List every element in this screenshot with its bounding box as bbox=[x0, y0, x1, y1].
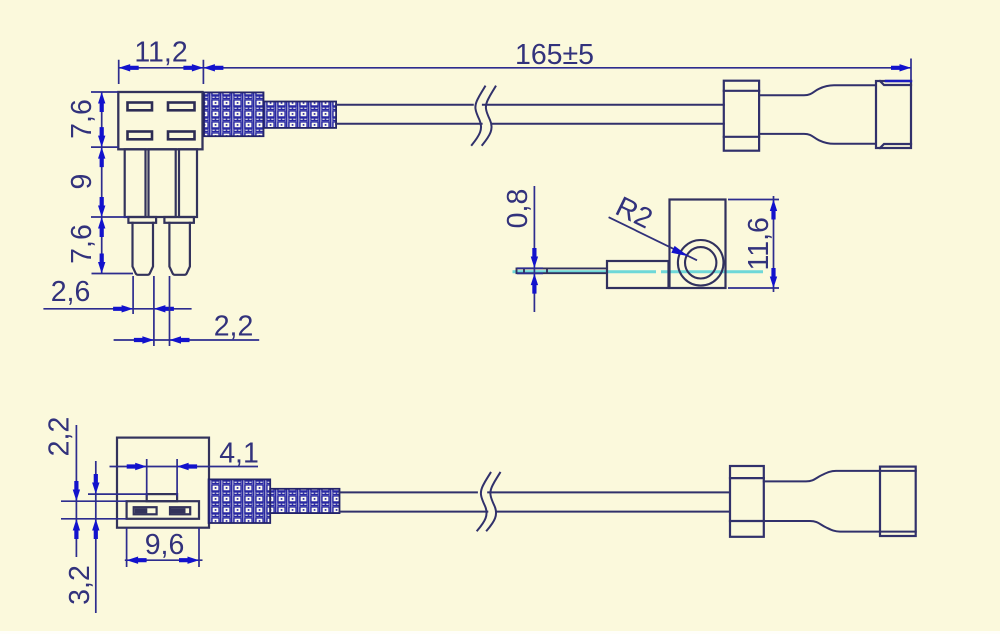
svg-text:2,6: 2,6 bbox=[51, 276, 91, 308]
svg-text:9: 9 bbox=[66, 174, 98, 190]
fuse slot openings (4) bbox=[128, 103, 195, 140]
detail: tap body side profile bbox=[670, 200, 726, 289]
braided sleeve small (bottom view) bbox=[270, 489, 339, 513]
blade slot filled openings bbox=[135, 508, 186, 513]
bottom white edge strip bbox=[0, 631, 1000, 634]
female terminal (bottom view connector) bbox=[880, 467, 916, 536]
crimp sleeve (bottom view connector) bbox=[730, 466, 764, 537]
svg-text:2,2: 2,2 bbox=[44, 417, 76, 457]
svg-text:11,6: 11,6 bbox=[743, 217, 775, 270]
cable break squiggle (bottom view) bbox=[477, 473, 500, 531]
svg-text:7,6: 7,6 bbox=[66, 99, 98, 139]
svg-text:2,2: 2,2 bbox=[214, 311, 254, 343]
dimension 2,2 (slot height, bottom view) bbox=[61, 425, 127, 557]
braided sleeve large (top view) bbox=[204, 92, 264, 136]
terminal top edge highlight (blue) bbox=[886, 80, 911, 82]
svg-text:165±5: 165±5 bbox=[515, 39, 594, 71]
dimension 11,6 (tap height) bbox=[728, 196, 779, 292]
housing legs (3 bars) bbox=[125, 149, 197, 217]
dimension 4,1 (key width) bbox=[110, 459, 259, 497]
radius leader R2 bbox=[609, 217, 697, 260]
detail: blade (side view) bbox=[517, 268, 608, 273]
dimension 0,8 (blade thickness) bbox=[517, 186, 543, 312]
svg-text:0,8: 0,8 bbox=[502, 189, 534, 229]
svg-text:7,6: 7,6 bbox=[66, 224, 98, 264]
wire lower line (top view) bbox=[336, 123, 724, 125]
fuse-tap body (bottom view) bbox=[117, 438, 209, 528]
detail: wire hole outer circle bbox=[678, 240, 724, 286]
crimp sleeve (top view connector) bbox=[724, 81, 759, 151]
insulating boot (top view connector) bbox=[759, 85, 876, 144]
dimension 2,2 (blade gap) bbox=[114, 276, 260, 346]
cable break squiggle (top view) bbox=[472, 87, 496, 146]
dimension 9,6 (slot width) bbox=[125, 528, 203, 567]
dimension 3,2 (key depth, bottom view) bbox=[88, 461, 147, 613]
wire upper line (bottom view) bbox=[340, 491, 731, 493]
svg-text:4,1: 4,1 bbox=[219, 438, 259, 470]
insulating boot (bottom view connector) bbox=[764, 471, 916, 532]
wire upper line (top view) bbox=[336, 104, 724, 106]
dimension 2,6 (blade width) bbox=[43, 276, 191, 346]
dimension 11,2 bbox=[119, 60, 204, 84]
left dimension column 7,6 / 9 / 7,6 bbox=[91, 92, 133, 274]
dimension 165±5 bbox=[203, 59, 911, 82]
svg-text:3,2: 3,2 bbox=[64, 565, 96, 605]
braided sleeve small (top view) bbox=[264, 102, 337, 128]
female terminal (top view connector) bbox=[876, 81, 911, 148]
svg-text:11,2: 11,2 bbox=[134, 37, 187, 69]
left blade terminal bbox=[128, 217, 156, 275]
detail: wire hole inner circle bbox=[685, 247, 716, 278]
braided sleeve large (bottom view) bbox=[209, 479, 271, 523]
right blade terminal bbox=[164, 217, 194, 275]
svg-text:9,6: 9,6 bbox=[145, 529, 185, 561]
detail: wire crimp block bbox=[607, 261, 669, 288]
blade slot housing (bottom view) bbox=[127, 494, 199, 519]
detail view: cyan centerline bbox=[513, 270, 764, 273]
fuse-tap body (top view) bbox=[118, 92, 202, 149]
wire lower line (bottom view) bbox=[340, 511, 731, 513]
